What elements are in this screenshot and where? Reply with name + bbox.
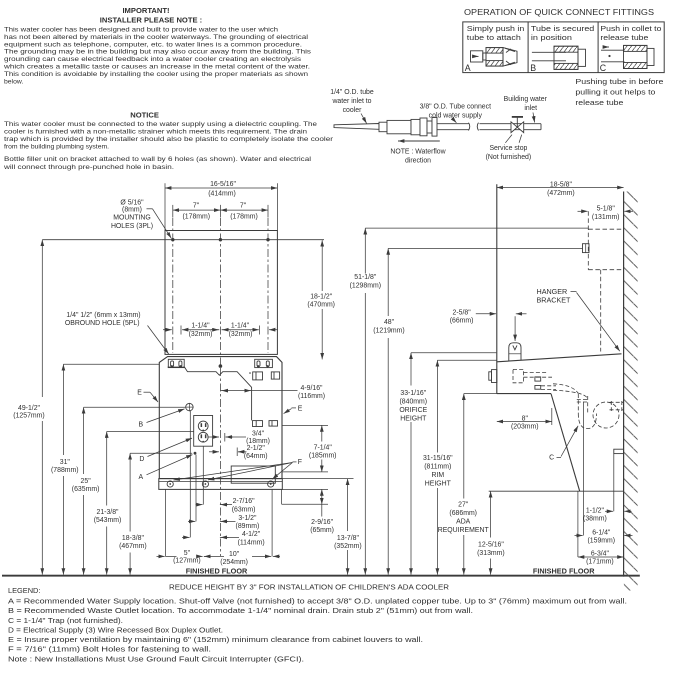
svg-text:(840mm): (840mm) — [400, 398, 428, 405]
regulator valve dashed — [513, 369, 588, 398]
leader to 3/8 tube — [453, 119, 457, 123]
svg-text:A: A — [465, 63, 471, 73]
svg-text:inlet: inlet — [524, 105, 537, 112]
svg-text:Building water: Building water — [504, 96, 548, 103]
label 1/4 OD tube water inlet — [330, 89, 374, 114]
svg-text:(178mm): (178mm) — [230, 213, 258, 220]
svg-text:C: C — [600, 63, 607, 73]
dimension 7-1/4 — [282, 424, 328, 426]
fitting A drawing — [471, 48, 518, 67]
svg-text:(18mm): (18mm) — [246, 438, 270, 445]
svg-text:C: C — [549, 455, 554, 462]
cell C caption — [600, 24, 662, 73]
svg-text:B: B — [530, 63, 536, 73]
svg-text:(8mm): (8mm) — [122, 207, 142, 214]
svg-text:51-1/8": 51-1/8" — [354, 274, 377, 281]
dimension 4-1/2 — [182, 536, 239, 538]
dimension 4-9/16 — [221, 390, 298, 392]
svg-text:4-1/2": 4-1/2" — [242, 531, 261, 538]
svg-text:HEIGHT: HEIGHT — [425, 481, 452, 488]
svg-text:(89mm): (89mm) — [236, 523, 260, 530]
svg-text:direction: direction — [405, 158, 431, 165]
building supply tube — [480, 124, 542, 130]
dimension 13-7/8 — [282, 478, 353, 480]
svg-text:(1219mm): (1219mm) — [373, 328, 404, 335]
svg-text:(65mm): (65mm) — [310, 527, 334, 534]
dimension 12-5/16 — [490, 491, 492, 537]
dimension 21-3/8 — [107, 431, 194, 433]
svg-text:A: A — [138, 474, 143, 481]
svg-text:water inlet to: water inlet to — [331, 98, 371, 105]
svg-text:6-1/4": 6-1/4" — [592, 529, 611, 536]
svg-text:pulling it out helps to: pulling it out helps to — [575, 88, 655, 97]
svg-text:E: E — [298, 406, 303, 413]
svg-text:INSTALLER PLEASE NOTE :: INSTALLER PLEASE NOTE : — [100, 15, 202, 24]
dimension 18-3/8 — [130, 452, 192, 454]
dimension 25 — [84, 406, 186, 408]
svg-text:trap which is provided by the: trap which is provided by the installer … — [4, 136, 334, 143]
extension droppers below cabinet — [165, 411, 281, 557]
svg-text:(32mm): (32mm) — [189, 331, 213, 338]
bolt hole F1 — [167, 481, 173, 487]
svg-text:Note : New Installations Must: Note : New Installations Must Use Ground… — [8, 654, 304, 663]
fitting C drawing — [601, 45, 654, 68]
svg-text:1/4" O.D. tube: 1/4" O.D. tube — [330, 89, 374, 96]
label hanger bracket — [537, 287, 572, 305]
svg-text:This condition is avoidable by: This condition is avoidable by installin… — [4, 71, 308, 78]
dimension 33-1/16 orifice height — [411, 352, 496, 354]
svg-text:OBROUND HOLE (5PL): OBROUND HOLE (5PL) — [65, 320, 140, 327]
svg-text:Simply push in: Simply push in — [467, 24, 525, 33]
svg-text:below.: below. — [4, 79, 23, 86]
bolt hole F3 — [268, 481, 274, 487]
dimension 2-1/2 inch — [209, 448, 247, 457]
wall face line — [623, 192, 625, 577]
dimension 6-1/4 — [582, 402, 584, 536]
dimension 1-1/4 right pair — [222, 326, 278, 335]
svg-text:The grounding may be in the bu: The grounding may be in the building but… — [4, 49, 312, 56]
svg-text:D = Electrical Supply (3) Wire: D = Electrical Supply (3) Wire Recessed … — [8, 626, 223, 635]
dimension 7 inch right — [220, 209, 268, 211]
svg-text:grounding can cause electrical: grounding can cause electrical feedback … — [4, 56, 302, 63]
svg-text:7": 7" — [240, 202, 247, 209]
svg-text:IMPORTANT!: IMPORTANT! — [122, 6, 169, 15]
ticks for 7 inch dims — [173, 205, 268, 218]
svg-text:E: E — [137, 390, 142, 397]
electrical outlet box D — [194, 416, 213, 447]
svg-text:7": 7" — [193, 202, 200, 209]
dimension 7 inch left — [173, 209, 221, 211]
1/4 tube — [334, 124, 379, 130]
svg-text:5-1/8": 5-1/8" — [597, 205, 616, 212]
bubbler — [509, 343, 521, 361]
svg-text:ORIFICE: ORIFICE — [399, 407, 427, 414]
svg-text:(116mm): (116mm) — [298, 393, 325, 400]
cell A caption — [465, 24, 525, 73]
svg-text:Tube is secured: Tube is secured — [531, 24, 594, 33]
cabinet base — [159, 479, 282, 490]
svg-text:will connect through pre-punch: will connect through pre-punched hole in… — [3, 164, 174, 171]
svg-text:Bottle filler unit on bracket: Bottle filler unit on bracket attached t… — [4, 156, 312, 163]
trap C dashed — [577, 394, 624, 429]
svg-text:21-3/8": 21-3/8" — [97, 509, 120, 516]
svg-text:BRACKET: BRACKET — [537, 296, 572, 305]
svg-text:(788mm): (788mm) — [51, 467, 79, 474]
waterflow arrow — [398, 140, 440, 142]
label E right — [292, 407, 297, 409]
title IMPORTANT note header — [100, 6, 202, 24]
svg-text:HOLES (3PL): HOLES (3PL) — [111, 223, 153, 230]
dimension 8 inch — [551, 408, 553, 425]
svg-text:12-5/16": 12-5/16" — [478, 542, 504, 549]
obround bracket left — [168, 359, 184, 367]
svg-text:2-5/8": 2-5/8" — [453, 309, 472, 316]
svg-text:(686mm): (686mm) — [449, 510, 477, 517]
label service stop — [486, 145, 532, 161]
dimension 5 inch — [157, 555, 203, 557]
svg-text:(178mm): (178mm) — [183, 213, 211, 220]
dimension 1-1/2 — [605, 510, 613, 512]
side fittings mid right — [253, 421, 278, 427]
dimension 31 — [63, 363, 159, 365]
dimension 2-5/8 — [514, 316, 516, 341]
cell B caption — [530, 24, 594, 73]
svg-text:(254mm): (254mm) — [220, 559, 248, 566]
svg-text:(127mm): (127mm) — [173, 557, 201, 564]
floor line — [2, 575, 640, 577]
dimension 16-5/16 — [165, 187, 277, 189]
svg-text:1-1/2": 1-1/2" — [586, 508, 605, 515]
dimension 51-1/8 — [365, 227, 588, 229]
dimension 2-7/16 — [196, 504, 233, 506]
note waterflow direction — [390, 149, 445, 165]
extension lines 16-5/16 — [164, 183, 166, 230]
svg-text:(1298mm): (1298mm) — [350, 283, 381, 290]
wall top line — [42, 239, 324, 241]
dimension 6-3/4 — [577, 491, 579, 557]
svg-text:from the building plumbing sys: from the building plumbing system. — [4, 144, 109, 151]
dimension 18-5/8 — [497, 187, 624, 189]
important note paragraph — [3, 26, 312, 85]
svg-text:1-1/4": 1-1/4" — [191, 323, 210, 330]
svg-text:(635mm): (635mm) — [72, 486, 100, 493]
inline strainer fitting — [379, 118, 437, 137]
dimension 48 — [388, 247, 582, 249]
dimension 5-1/8 — [578, 210, 588, 212]
dimension 1-1/4 left pair — [163, 326, 219, 335]
svg-text:18-3/8": 18-3/8" — [122, 535, 145, 542]
svg-text:7-1/4": 7-1/4" — [314, 445, 333, 452]
svg-text:release tube: release tube — [600, 33, 648, 42]
cooler top slope — [497, 354, 622, 362]
svg-text:3-1/2": 3-1/2" — [238, 515, 257, 522]
leader to 1/4 tube — [361, 114, 367, 124]
svg-text:F = 7/16" (11mm) Bolt Holes fo: F = 7/16" (11mm) Bolt Holes for fastenin… — [8, 645, 211, 654]
svg-text:13-7/8": 13-7/8" — [337, 535, 360, 542]
top inner profile — [168, 367, 252, 420]
leader C — [561, 426, 578, 457]
center line dropper — [219, 368, 221, 556]
svg-text:C = 1-1/4" Trap (not furnished: C = 1-1/4" Trap (not furnished). — [8, 616, 123, 625]
svg-text:(467mm): (467mm) — [119, 543, 147, 550]
cooler cabinet outline front view — [159, 357, 282, 479]
svg-text:LEGEND:: LEGEND: — [8, 586, 40, 595]
svg-text:(131mm): (131mm) — [592, 214, 620, 221]
svg-text:FINISHED FLOOR: FINISHED FLOOR — [186, 566, 248, 575]
leaders service stop — [505, 135, 512, 143]
waste outlet B circle — [185, 403, 193, 411]
svg-text:48": 48" — [384, 319, 395, 326]
svg-text:HEIGHT: HEIGHT — [400, 416, 427, 423]
svg-text:(159mm): (159mm) — [588, 537, 616, 544]
svg-text:(470mm): (470mm) — [307, 302, 335, 309]
svg-text:cooler: cooler — [343, 107, 362, 114]
svg-text:2-7/16": 2-7/16" — [233, 498, 256, 505]
drain stub at wall — [614, 449, 624, 453]
svg-text:16-5/16": 16-5/16" — [210, 181, 236, 188]
svg-text:(414mm): (414mm) — [208, 190, 236, 197]
svg-text:(171mm): (171mm) — [586, 559, 614, 566]
label obround holes — [65, 312, 141, 327]
svg-text:tube to attach: tube to attach — [467, 33, 521, 42]
label building water inlet — [504, 96, 548, 112]
clip right upper pair — [249, 372, 279, 380]
service stop valve — [511, 117, 524, 133]
svg-text:Ø 5/16": Ø 5/16" — [120, 200, 144, 207]
svg-text:MOUNTING: MOUNTING — [113, 215, 151, 222]
svg-text:D: D — [139, 456, 144, 463]
water inlet fitting on front — [489, 370, 497, 383]
svg-text:(66mm): (66mm) — [450, 317, 474, 324]
svg-text:has not been altered by materi: has not been altered by materials in the… — [4, 34, 309, 41]
svg-text:(811mm): (811mm) — [424, 464, 451, 471]
hole center dashed lines — [173, 218, 268, 365]
svg-text:8": 8" — [522, 415, 529, 422]
svg-text:(63mm): (63mm) — [232, 507, 256, 514]
cooler front face line — [496, 184, 498, 393]
svg-text:E = Insure proper ventilation: E = Insure proper ventilation by maintai… — [8, 635, 423, 644]
svg-text:(Not furnished): (Not furnished) — [486, 154, 532, 161]
cabinet ledge — [497, 393, 551, 395]
svg-text:NOTICE: NOTICE — [130, 111, 159, 120]
label mounting holes — [111, 200, 153, 230]
svg-text:OPERATION OF QUICK CONNECT FIT: OPERATION OF QUICK CONNECT FITTINGS — [464, 7, 655, 17]
svg-text:NOTE : Waterflow: NOTE : Waterflow — [390, 149, 445, 156]
fitting B drawing — [532, 46, 586, 69]
3/8 tube segment — [437, 123, 479, 131]
wall hatching — [624, 192, 638, 591]
svg-text:2-9/16": 2-9/16" — [311, 519, 334, 526]
svg-text:(114mm): (114mm) — [238, 539, 265, 546]
bottle filler mounting panel — [165, 231, 277, 355]
dimension 3/4 inch — [208, 433, 247, 442]
quick connect box — [463, 22, 664, 73]
svg-text:B = Recommended Waste Outlet l: B = Recommended Waste Outlet location. T… — [8, 606, 473, 615]
svg-text:release tube: release tube — [575, 98, 623, 107]
svg-text:B: B — [138, 422, 143, 429]
svg-text:cooler is furnished with a non: cooler is furnished with a non-metallic … — [4, 129, 307, 136]
leader mounting holes — [147, 208, 153, 210]
svg-text:F: F — [298, 459, 302, 466]
dimension 10 inch — [204, 555, 280, 557]
svg-text:(352mm): (352mm) — [334, 543, 362, 550]
svg-text:31": 31" — [60, 459, 71, 466]
louver panel — [231, 466, 275, 483]
svg-text:(472mm): (472mm) — [547, 190, 575, 197]
leader obround — [148, 326, 169, 355]
svg-text:10": 10" — [229, 551, 240, 558]
svg-text:FINISHED FLOOR: FINISHED FLOOR — [533, 566, 595, 575]
svg-text:which creates a metallic taste: which creates a metallic taste or causes… — [3, 64, 310, 71]
svg-text:27": 27" — [458, 502, 469, 509]
dimension 27 ADA — [464, 393, 497, 395]
svg-text:This water cooler must be conn: This water cooler must be connected to t… — [4, 121, 317, 128]
obround bracket right — [255, 359, 273, 367]
hanger bracket dashed outline — [588, 211, 623, 351]
svg-text:2-1/2": 2-1/2" — [247, 445, 266, 452]
svg-text:4-9/16": 4-9/16" — [301, 385, 324, 392]
pushing tube note — [575, 77, 663, 107]
svg-text:3/8" O.D. Tube connect: 3/8" O.D. Tube connect — [420, 103, 491, 110]
notice paragraph — [3, 121, 334, 171]
svg-text:1/4" 1/2" (6mm x 13mm): 1/4" 1/2" (6mm x 13mm) — [66, 312, 140, 319]
svg-text:33-1/16": 33-1/16" — [400, 390, 426, 397]
cabinet bottom line — [489, 490, 624, 492]
svg-text:(313mm): (313mm) — [477, 550, 505, 557]
svg-text:(185mm): (185mm) — [309, 452, 337, 459]
svg-text:in position: in position — [531, 33, 572, 42]
svg-text:(543mm): (543mm) — [94, 517, 122, 524]
svg-text:Push in collet to: Push in collet to — [600, 24, 661, 33]
svg-text:This water cooler has been des: This water cooler has been designed and … — [4, 26, 278, 33]
basin center hole — [219, 364, 223, 368]
svg-text:5": 5" — [184, 550, 191, 557]
svg-text:18-1/2": 18-1/2" — [310, 293, 333, 300]
cabinet sloped lower front — [551, 394, 580, 492]
svg-text:25": 25" — [81, 478, 92, 485]
svg-text:(32mm): (32mm) — [229, 331, 253, 338]
water inlet connector on bracket — [583, 244, 590, 253]
svg-text:(1257mm): (1257mm) — [13, 413, 44, 420]
svg-text:(64mm): (64mm) — [244, 453, 268, 460]
dimension 49-1/2 — [41, 240, 43, 397]
svg-text:REQUIREMENT: REQUIREMENT — [438, 527, 490, 534]
svg-text:6-3/4": 6-3/4" — [591, 550, 610, 557]
svg-text:49-1/2": 49-1/2" — [18, 405, 41, 412]
legend block — [8, 586, 627, 663]
svg-text:3/4": 3/4" — [252, 430, 265, 437]
svg-text:Pushing tube in before: Pushing tube in before — [575, 77, 663, 86]
water supply location A dot — [194, 452, 197, 455]
leader building inlet — [533, 113, 535, 123]
svg-text:ADA: ADA — [456, 519, 471, 526]
svg-text:RIM: RIM — [431, 472, 444, 479]
svg-text:REDUCE HEIGHT BY 3" FOR INSTAL: REDUCE HEIGHT BY 3" FOR INSTALLATION OF … — [169, 582, 449, 591]
label 3/8 OD tube connect — [420, 103, 491, 119]
svg-text:equipment such as telephone, c: equipment such as telephone, computer, e… — [4, 41, 302, 48]
svg-text:(38mm): (38mm) — [583, 516, 607, 523]
leader hanger bracket — [577, 293, 620, 352]
dimension 3-1/2 — [188, 520, 236, 522]
supply nuts solid — [535, 377, 541, 381]
svg-text:Service stop: Service stop — [489, 145, 527, 152]
svg-text:31-15/16": 31-15/16" — [423, 455, 453, 462]
dimension 2-9/16 — [282, 488, 328, 490]
svg-text:1-1/4": 1-1/4" — [231, 323, 250, 330]
mounting hole dots on wall line — [171, 238, 270, 241]
dimension 31-15/16 rim height — [437, 359, 496, 361]
svg-text:(203mm): (203mm) — [511, 424, 539, 431]
svg-text:18-5/8": 18-5/8" — [550, 181, 573, 188]
svg-text:A = Recommended Water Supply l: A = Recommended Water Supply location. S… — [8, 597, 627, 606]
bolt hole F2 — [202, 481, 208, 487]
dimension 18-1/2 — [321, 240, 323, 291]
